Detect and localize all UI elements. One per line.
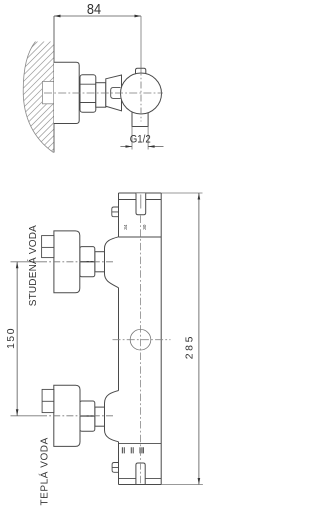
upper cap seam <box>42 246 54 248</box>
lower nut <box>80 401 95 431</box>
bar right edge <box>160 193 162 485</box>
upper nut mid line <box>80 261 95 263</box>
lower tube <box>95 407 105 426</box>
lower axis extension <box>11 415 41 417</box>
hex nut (side view) <box>80 75 96 113</box>
svg-text:285: 285 <box>184 334 196 359</box>
lower wall tab <box>112 463 119 473</box>
inlet trapezoid <box>106 75 122 111</box>
svg-text:84: 84 <box>87 1 102 17</box>
lower cap <box>42 389 54 412</box>
bar body fill <box>119 193 162 485</box>
upper axis extension <box>11 261 41 263</box>
dim line 84 <box>54 15 141 17</box>
redraw bottom edge over slot <box>119 484 162 486</box>
svg-text:30: 30 <box>142 224 148 230</box>
arrow left 84 <box>54 15 61 18</box>
vertical center line of body <box>140 69 142 122</box>
lower nut mid line <box>80 415 95 417</box>
top slot center line <box>140 195 142 209</box>
dim line 285 <box>198 193 200 485</box>
upper axis dash-dot <box>40 261 113 263</box>
arrow 150 bottom <box>16 409 19 416</box>
bottom slot <box>136 463 145 484</box>
arrow G1/2 left <box>126 145 133 148</box>
svg-text:STUDENÁ VODA: STUDENÁ VODA <box>26 225 39 306</box>
bar seam lines <box>119 200 162 444</box>
lower cap seam <box>42 400 54 402</box>
connecting pipe <box>96 83 106 108</box>
arrow 150 top <box>16 262 19 269</box>
bar top edge + extension to 285 <box>119 192 162 194</box>
wall outline arc <box>23 42 53 153</box>
G1/2 extension lines <box>132 127 148 150</box>
horizontal axis line <box>44 92 163 94</box>
top stub on body <box>136 68 146 76</box>
inlet port <box>111 88 121 99</box>
bar bottom edge + extension <box>119 484 162 486</box>
wall hatching <box>0 11 55 153</box>
knurl ticks <box>122 447 143 453</box>
nut flats <box>80 84 96 102</box>
upper nut <box>80 247 95 277</box>
bottom seam segments <box>119 478 162 480</box>
svg-text:TEPLÁ VODA: TEPLÁ VODA <box>37 437 50 505</box>
bar vertical center line <box>140 216 142 484</box>
svg-text:G1/2: G1/2 <box>130 133 151 146</box>
middle circle <box>130 329 151 350</box>
upper wall tab <box>112 207 120 217</box>
dim line 150 <box>16 262 18 416</box>
arrow 285 bottom <box>198 478 201 485</box>
valve body circle <box>121 73 162 114</box>
upper cap <box>42 236 54 258</box>
middle circle axis <box>113 339 171 341</box>
svg-text:150: 150 <box>6 327 17 349</box>
arrow G1/2 right <box>148 145 155 148</box>
lower knob <box>54 385 80 446</box>
knob flange (side view) <box>54 62 79 123</box>
svg-text:34: 34 <box>123 224 129 230</box>
upper knob <box>54 231 80 293</box>
vertical extension line (dim 84 right) <box>140 16 142 68</box>
arrow right 84 <box>135 15 142 18</box>
lower axis dash-dot <box>40 415 113 417</box>
G1/2 dim segments <box>120 146 163 148</box>
wall pipe notch <box>42 81 54 103</box>
bar left edge segments <box>118 193 120 485</box>
upper valve housing <box>105 237 119 288</box>
top slot <box>136 193 146 214</box>
lower valve housing <box>105 391 119 442</box>
wall face / left extension line of dim 84 <box>53 16 55 153</box>
upper tube <box>95 252 105 272</box>
outlet pipe G1/2 <box>132 108 148 127</box>
arrow 285 top <box>198 193 201 200</box>
